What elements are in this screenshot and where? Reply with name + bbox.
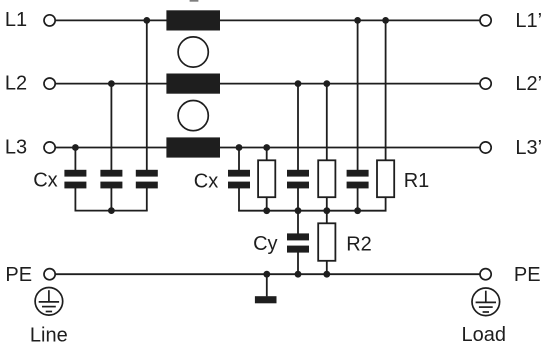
resistor R2 [318,223,335,260]
svg-text:Load: Load [462,324,507,346]
svg-text:L3: L3 [5,136,27,158]
node R1/L1 junction [382,17,389,24]
inductor winding L3 [166,137,220,157]
wire PE [56,273,480,275]
wire cap Cx1 top leg [74,148,76,171]
node bus/RB junction [323,207,330,214]
wire cap CxC bottom leg [357,188,359,211]
terminal L1' load side [480,15,491,26]
terminal L2 line side [44,78,55,89]
wire cap CxA top leg [238,148,240,171]
choke core circle lower [178,101,208,131]
terminal L3 line side [44,142,55,153]
capacitor CxC [347,170,369,189]
wire cap Cx3 top leg [146,20,148,170]
capacitor Cx3 [136,170,158,189]
clipped label fragment at top [190,0,199,2]
resistor RB [318,160,335,197]
wire resistor RA top leg [266,148,268,162]
node PE/Cy junction [295,271,302,278]
wire cap Cx1 bottom leg [74,188,76,211]
wire resistor RA bottom leg [266,197,268,211]
chassis ground bar [255,296,277,303]
wire L1 right segment [220,19,481,21]
wire capacitor Cy bottom leg [297,252,299,274]
svg-text:L2: L2 [5,72,27,94]
wire resistor R2 top leg [326,211,328,224]
svg-text:R1: R1 [404,170,430,192]
protective earth symbol load side [472,288,500,316]
node CxA/L3 junction [236,144,243,151]
node bus/RA junction [263,207,270,214]
node bus/CxC junction [354,207,361,214]
svg-text:L1’: L1’ [515,10,542,32]
node left star point [108,207,115,214]
wire cap Cx3 bottom leg [146,188,148,211]
wire right star bus [238,210,386,212]
wire cap CxA bottom leg [238,188,240,211]
inductor winding L1 [166,10,220,30]
node Cx3/L1 junction [143,17,150,24]
node CxC/L1 junction [354,17,361,24]
choke core circle upper [178,37,208,67]
wire cap Cx2 top leg [110,84,112,171]
protective earth symbol line side [35,288,63,316]
wire left star bus [75,210,148,212]
capacitor Cy [287,233,309,252]
wire cap CxB bottom leg [297,188,299,211]
terminal PE line side [44,269,55,280]
node Cx2/L2 junction [108,80,115,87]
capacitor Cx2 [100,170,122,189]
terminal L2' load side [480,78,491,89]
svg-text:L3’: L3’ [515,137,542,159]
wire chassis ground stub [266,274,268,296]
capacitor CxA [228,170,250,189]
svg-text:Line: Line [30,325,68,347]
node RA/L3 junction [263,144,270,151]
svg-text:Cy: Cy [253,233,277,255]
resistor R1 [377,160,394,197]
wire resistor RB bottom leg [326,197,328,211]
node RB/L2 junction [323,80,330,87]
terminal PE load side [480,269,491,280]
wire resistor RB top leg [326,84,328,161]
svg-text:PE: PE [514,264,541,286]
terminal L1 line side [44,15,55,26]
svg-text:PE: PE [5,264,32,286]
node CxB/L2 junction [295,80,302,87]
node Cx1/L3 junction [72,144,79,151]
wire cap CxC top leg [357,20,359,170]
resistor RA [258,160,275,197]
capacitor CxB [287,170,309,189]
wire cap Cx2 bottom leg [110,188,112,211]
svg-text:L1: L1 [5,9,27,31]
node bus/CxB junction [295,207,302,214]
svg-text:Cx: Cx [33,170,57,192]
wire resistor R1 top leg [385,20,387,161]
wire L2 left segment [56,83,167,85]
svg-text:R2: R2 [346,233,372,255]
wire capacitor Cy top leg [297,211,299,234]
wire resistor R2 bottom leg [326,260,328,274]
wire cap CxB top leg [297,84,299,171]
wire resistor R1 bottom leg [385,197,387,211]
wire L2 right segment [220,83,481,85]
svg-text:Cx: Cx [194,171,218,193]
wire L1 left segment [56,19,167,21]
svg-text:L2’: L2’ [515,73,542,95]
node PE/R2 junction [323,271,330,278]
terminal L3' load side [480,142,491,153]
node PE/ground stub junction [263,271,270,278]
inductor winding L2 [166,74,220,94]
wire L3 left segment [56,147,167,149]
capacitor Cx1 [64,170,86,189]
wire L3 right segment [220,147,481,149]
